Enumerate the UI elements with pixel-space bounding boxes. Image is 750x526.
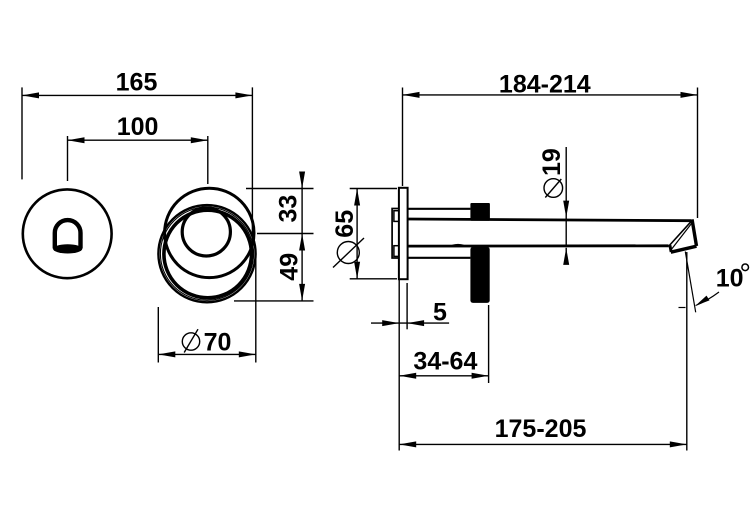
svg-text:33: 33 xyxy=(275,195,303,223)
svg-text:49: 49 xyxy=(276,253,304,281)
svg-text:175-205: 175-205 xyxy=(495,415,587,443)
svg-text:65: 65 xyxy=(331,210,359,238)
svg-text:19: 19 xyxy=(538,148,566,176)
svg-text:165: 165 xyxy=(116,68,158,96)
svg-text:70: 70 xyxy=(204,329,232,357)
svg-text:10: 10 xyxy=(716,265,744,293)
svg-text:184-214: 184-214 xyxy=(499,71,591,99)
svg-text:5: 5 xyxy=(433,298,447,326)
svg-text:100: 100 xyxy=(117,113,159,141)
svg-text:34-64: 34-64 xyxy=(413,348,477,376)
